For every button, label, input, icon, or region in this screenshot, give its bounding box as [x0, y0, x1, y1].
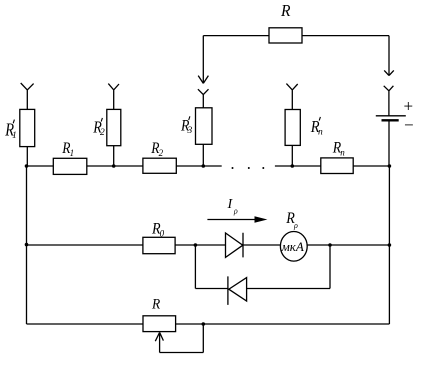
resistor R'2 body [107, 109, 121, 145]
wire top right [302, 35, 389, 37]
bottom wire left [27, 323, 144, 325]
rheostat R body [143, 316, 176, 332]
bypass wire to diode [195, 288, 228, 290]
junction node bus-R'n [291, 164, 295, 168]
resistor R'n body [285, 110, 300, 146]
battery short plate [382, 119, 399, 121]
wire below R'2 [113, 146, 115, 166]
svg-text:2: 2 [100, 128, 105, 138]
bottom wire right [176, 323, 390, 325]
wiper wire [160, 324, 204, 353]
right rail [388, 166, 390, 324]
resistor Rn body [321, 158, 353, 174]
junction node bus-R'2 [112, 164, 116, 168]
arrowhead down left [198, 76, 208, 84]
antenna 1 [21, 83, 34, 109]
middle wire right [307, 244, 389, 246]
svg-text:0: 0 [160, 228, 165, 238]
bypass rise to middle [329, 245, 331, 289]
antenna 5 [384, 86, 394, 116]
svg-text:n: n [340, 148, 345, 158]
junction node mid-right [388, 243, 392, 247]
resistor R'3 body [196, 108, 213, 145]
wire drop to arrow right [388, 36, 390, 75]
bus wire segment 1 [27, 165, 54, 167]
svg-text:+: + [404, 97, 414, 116]
resistor R'1 body [20, 109, 35, 146]
svg-text:2: 2 [159, 148, 164, 158]
junction node bottom-wiper [202, 322, 206, 326]
bus wire segment 4 [275, 165, 321, 167]
svg-text:−: − [404, 116, 414, 135]
antenna 2 [108, 84, 119, 110]
arrowhead down right [384, 70, 394, 75]
middle wire left [27, 244, 143, 246]
svg-text:R: R [151, 297, 160, 313]
wire drop to arrow left [202, 36, 204, 83]
svg-text:I: I [227, 197, 234, 212]
resistor R0 body [143, 237, 175, 253]
resistor R1 body [53, 158, 87, 174]
battery long plate [376, 115, 406, 117]
svg-text:n: n [318, 127, 323, 137]
ellipsis dots on bus [232, 167, 234, 169]
left rail [26, 166, 28, 324]
bus wire segment 2 [87, 165, 143, 167]
antenna 3 [198, 89, 209, 108]
antenna 4 [286, 84, 297, 110]
diode VD2 [228, 276, 247, 305]
junction node mid-branch [194, 243, 198, 247]
meter circle [280, 232, 307, 262]
middle wire to junction [175, 244, 225, 246]
rheostat wiper arrow [155, 332, 163, 352]
wire diode to meter [243, 244, 281, 246]
wire below R'n [291, 145, 293, 166]
svg-text:1: 1 [70, 148, 75, 158]
junction node bus-right [388, 164, 392, 168]
resistor R2 body [143, 158, 176, 173]
diode VD1 [226, 233, 244, 258]
bus wire segment 3 [176, 165, 221, 167]
junction node mid-meter-right [328, 243, 332, 247]
junction node bus-left [25, 164, 29, 168]
svg-text:3: 3 [187, 126, 193, 136]
current arrow Ig [207, 219, 258, 221]
svg-text:ρ: ρ [233, 207, 238, 216]
bus wire segment 5 [353, 165, 389, 167]
bypass branch left drop [194, 245, 196, 289]
bypass wire right [247, 288, 330, 290]
svg-text:1: 1 [12, 131, 17, 141]
wire battery to bus [388, 122, 390, 167]
wire below R'3 [202, 144, 204, 166]
junction node mid-left [25, 243, 29, 247]
svg-text:R: R [280, 1, 290, 20]
svg-text:мкА: мкА [281, 239, 304, 254]
wire top left [203, 35, 269, 37]
svg-text:ρ: ρ [293, 221, 298, 230]
wire below R'1 [26, 147, 28, 166]
resistor R (top) [269, 28, 302, 43]
junction node bus-R'3 [202, 164, 206, 168]
